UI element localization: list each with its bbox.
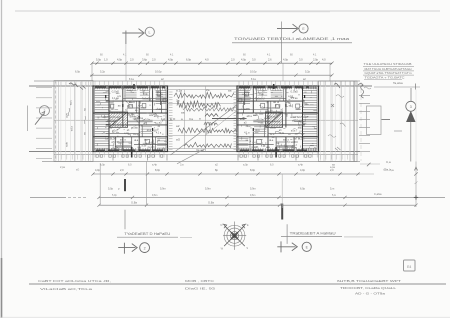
svg-text:9,6m: 9,6m — [250, 194, 255, 197]
svg-text:3: 3 — [410, 105, 412, 109]
compass crosshair horizontal — [223, 235, 246, 237]
section marker 2 arrowhead — [293, 24, 299, 33]
internal wall horizontal A — [237, 100, 305, 102]
svg-text:MOB , CBTC: MOB , CBTC — [185, 279, 215, 283]
svg-text:10,0p: 10,0p — [155, 70, 162, 74]
right section thick bar — [281, 204, 283, 220]
door arcs — [285, 101, 291, 107]
svg-text:(Ba,): (Ba,) — [384, 167, 391, 171]
lower dimension line A — [93, 173, 360, 175]
svg-text:a2: a2 — [176, 124, 180, 128]
svg-text:2,0p: 2,0p — [313, 57, 319, 61]
svg-text:2,pa: 2,pa — [60, 166, 65, 169]
svg-text:4,0a: 4,0a — [69, 100, 73, 106]
svg-text:aa2 a: aa2 a — [120, 140, 126, 142]
internal wall vertical C — [152, 86, 154, 113]
svg-text:L: L — [149, 30, 151, 34]
compass inner circle — [230, 232, 238, 240]
internal wall vertical B — [138, 101, 140, 152]
dash segment right — [382, 119, 391, 121]
right reference faint upper — [415, 90, 417, 162]
left scan edge — [1, 0, 3, 318]
svg-text:a 2a: a 2a — [176, 89, 182, 93]
svg-text:2a a: 2a a — [133, 134, 138, 136]
below-wall square marks row — [96, 155, 98, 157]
svg-text:6,0p: 6,0p — [75, 70, 81, 74]
svg-text:10,0p: 10,0p — [250, 70, 257, 74]
left section vertical at 146 — [146, 162, 148, 206]
compass outer circle — [224, 225, 245, 246]
upper mid comb — [257, 90, 267, 92]
lower dim B ticks — [97, 196, 100, 199]
right deck vertical hatch — [320, 82, 322, 162]
svg-text:4,0p: 4,0p — [283, 57, 289, 61]
internal wall horizontal A — [106, 100, 168, 102]
lower right comb — [238, 138, 248, 140]
left deck strong joists — [58, 81, 60, 161]
svg-text:E: E — [247, 223, 249, 227]
internal wall horizontal C — [237, 124, 305, 126]
section marker 2 stem — [277, 28, 297, 30]
internal wall vertical D partials — [293, 137, 295, 152]
svg-text:aa2 a: aa2 a — [283, 140, 289, 142]
gap second diagonal — [205, 110, 237, 136]
svg-text:aGa: aGa — [156, 95, 161, 97]
right section vertical light — [281, 174, 283, 208]
unit side stair hatch — [95, 87, 110, 89]
bottom mid comb — [277, 145, 293, 147]
bottom mid comb — [116, 145, 131, 147]
gap horizontal lines — [168, 89, 238, 91]
svg-text:4,0: 4,0 — [322, 57, 326, 61]
unit side stair hatch — [303, 87, 318, 89]
extra wall stubs — [268, 107, 280, 109]
dark door jambs — [122, 104, 124, 107]
section marker 1 stem — [122, 32, 143, 34]
svg-text:a 3a: a 3a — [141, 146, 146, 148]
bottom wall window comb — [238, 148, 240, 152]
svg-text:aa: aa — [228, 89, 232, 93]
svg-text:aT a2: aT a2 — [275, 106, 282, 108]
unit bottom tick row below — [94, 152, 96, 158]
trademeet marker circle — [302, 242, 311, 251]
compass star — [230, 231, 239, 240]
bottom wall dark sill segments — [96, 149, 105, 151]
gap tall spike cluster — [204, 122, 217, 125]
bath divider — [159, 86, 161, 105]
right deck interior squiggles — [336, 95, 344, 98]
second top dimension line — [90, 74, 332, 76]
main top wall line extension — [29, 85, 372, 87]
bottom wall dark sill segments — [240, 149, 249, 151]
trademeet label underline — [281, 236, 342, 238]
svg-text:5,0p: 5,0p — [112, 194, 117, 197]
svg-text:aa: aa — [181, 111, 185, 115]
svg-text:(a,AR): (a,AR) — [251, 146, 258, 149]
svg-text:4,0p: 4,0p — [168, 57, 174, 61]
unit side hatch wall — [108, 86, 110, 152]
left edge vertical line — [26, 106, 28, 132]
svg-text:Ta,aGa: Ta,aGa — [393, 81, 403, 85]
stair diagonal hatch block — [109, 112, 128, 127]
svg-text:apG: apG — [65, 142, 69, 147]
right deck border — [319, 81, 358, 162]
svg-text:B,Oa: B,Oa — [291, 146, 297, 149]
svg-text:4,0p: 4,0p — [300, 168, 306, 172]
extra wall stubs — [128, 107, 139, 109]
svg-text:3,a: 3,a — [180, 163, 184, 166]
top wall window comb — [238, 86, 240, 90]
svg-text:a,4p: a,4p — [298, 163, 303, 166]
top dimension line — [92, 62, 332, 64]
svg-text:aGa: aGa — [245, 95, 250, 97]
svg-text:A 4,1: A 4,1 — [252, 141, 258, 144]
svg-text:aCa: aCa — [255, 130, 260, 132]
left deck top scribbles — [69, 83, 78, 87]
internal wall horizontal B — [237, 112, 319, 114]
mid floor line — [54, 119, 358, 121]
right section line top — [410, 88, 412, 101]
internal wall vertical A — [285, 86, 287, 128]
internal wall horizontal D — [93, 136, 168, 138]
svg-text:a: a — [199, 117, 201, 121]
svg-text:4,0p: 4,0p — [95, 168, 101, 172]
left deck bottom comb — [55, 155, 57, 160]
gap zigzag — [205, 114, 218, 117]
bathroom fixture combs — [238, 90, 250, 92]
svg-text:2,0: 2,0 — [120, 168, 124, 172]
svg-text:5,2p: 5,2p — [100, 70, 106, 74]
title strip rule — [29, 283, 446, 285]
left deck vertical hatch — [55, 81, 57, 161]
svg-text:5,2p: 5,2p — [305, 70, 311, 74]
svg-text:8,0p: 8,0p — [250, 168, 256, 172]
svg-text:5,0p: 5,0p — [96, 57, 102, 61]
internal wall horizontal C — [106, 124, 168, 126]
left section thin line — [124, 210, 126, 230]
right section thin line — [286, 224, 288, 244]
kitchen ticks — [254, 126, 266, 128]
deck top edge line — [34, 80, 360, 82]
interior scatter texture — [159, 116, 162, 118]
top dim ticks — [90, 62, 93, 65]
svg-text:5,9m: 5,9m — [205, 186, 211, 190]
right steps ladder — [359, 94, 370, 96]
svg-text:3,0: 3,0 — [252, 57, 256, 61]
right deck inner edge double line — [353, 81, 355, 162]
note block rule3 — [363, 74, 414, 76]
svg-text:5,a: 5,a — [390, 168, 394, 172]
svg-text:G,Ba: G,Ba — [208, 200, 214, 204]
svg-text:GQUAT aTAL TTAGTGAT T,GTm: GQUAT aTAL TTAGTGAT T,GTm — [365, 71, 412, 75]
svg-text:E4: E4 — [407, 265, 411, 269]
svg-text:4,0p: 4,0p — [241, 57, 247, 61]
unit bottom tick row below — [238, 152, 240, 158]
north arrow solid triangle — [407, 112, 415, 122]
fixture marks — [157, 92, 161, 96]
svg-text:aD a: aD a — [154, 115, 160, 118]
right section line bottom — [410, 122, 412, 162]
left stair ladder marks — [36, 87, 52, 89]
svg-text:3a,G: 3a,G — [275, 115, 280, 117]
left reference arrow — [35, 114, 44, 125]
svg-text:2,pa: 2,pa — [70, 126, 74, 132]
svg-text:5,m: 5,m — [330, 186, 334, 190]
svg-text:5,9m: 5,9m — [250, 186, 256, 190]
right tiny arrow bottom — [415, 162, 417, 208]
dim end verticals — [91, 63, 93, 81]
interior scatter texture — [310, 144, 314, 146]
internal wall vertical D partials — [114, 137, 116, 152]
gap diagonal line — [171, 104, 239, 155]
svg-text:TGDAGTA + TG,BATC: TGDAGTA + TG,BATC — [365, 75, 405, 79]
svg-text:a,4a: a,4a — [279, 132, 284, 135]
kitchen ticks — [141, 126, 152, 128]
deck-bottom line right extension — [360, 163, 380, 165]
svg-text:2,0: 2,0 — [231, 57, 235, 61]
svg-text:aG: aG — [176, 138, 181, 142]
unit outer wall — [237, 86, 319, 152]
svg-text:4,1 a: 4,1 a — [156, 132, 162, 135]
left deck dashed edge — [55, 81, 57, 162]
stair diagonal hatch block — [266, 112, 283, 127]
svg-text:6,0: 6,0 — [128, 163, 132, 166]
left section thick bar — [124, 179, 126, 191]
unit outer wall — [93, 86, 168, 152]
taqha underline right — [374, 86, 420, 88]
svg-text:A 4,1: A 4,1 — [148, 141, 154, 144]
svg-text:8 1a: 8 1a — [251, 78, 256, 81]
svg-text:a,pa: a,pa — [330, 166, 335, 169]
trademeet marker arrow — [277, 246, 295, 248]
svg-text:a,0p: a,0p — [100, 163, 105, 166]
basement label underline — [117, 236, 178, 238]
svg-text:TILE UHLATECH STIDAUAB: TILE UHLATECH STIDAUAB — [364, 62, 412, 66]
compass crosshair vertical — [234, 222, 236, 250]
svg-text:9,6m: 9,6m — [152, 194, 157, 197]
lower dimension line B dashed left — [30, 196, 66, 198]
bottom wall window comb — [94, 148, 96, 152]
svg-text:3a: 3a — [83, 108, 87, 111]
closet comb — [126, 90, 137, 92]
compass star center dot — [233, 235, 235, 237]
svg-text:aa: aa — [83, 132, 86, 135]
right reference line marks — [414, 172, 418, 175]
svg-text:8 1a: 8 1a — [129, 78, 134, 81]
top wall dark sill segments — [95, 86, 106, 88]
unit top tick row above — [238, 81, 240, 86]
second dim ticks — [90, 74, 93, 77]
top wall window comb — [94, 86, 96, 90]
svg-text:aGa T: aGa T — [291, 131, 298, 133]
top wall dark sill segments — [239, 86, 250, 88]
top right section line — [280, 22, 282, 64]
svg-text:2,6: 2,6 — [268, 57, 272, 61]
unit side hatch wall — [302, 86, 304, 152]
compass arrowheads — [223, 224, 227, 228]
top scan shadow line — [15, 10, 440, 12]
closet comb — [271, 90, 283, 92]
svg-text:aa Ga: aa Ga — [264, 118, 271, 120]
svg-text:Ga aa: Ga aa — [261, 107, 268, 110]
bottom wall long line — [29, 151, 360, 153]
bottom scan edge — [0, 316, 450, 318]
bath divider — [244, 86, 246, 105]
below-wall square marks row — [240, 155, 242, 157]
left reference circle — [39, 106, 49, 116]
compass diagonal NW-SE — [224, 225, 245, 246]
dark door jambs — [285, 104, 287, 107]
circle-3 marker — [406, 101, 416, 111]
svg-text:aLa: aLa — [269, 139, 274, 142]
left deck wavy marks — [68, 108, 70, 116]
steps squiggle notes — [358, 84, 364, 99]
internal wall horizontal D — [237, 136, 319, 138]
fixture marks — [244, 92, 248, 96]
lower dim A ticks — [91, 172, 94, 175]
svg-text:aLa: aLa — [134, 139, 139, 142]
svg-text:AD - G - OT9a: AD - G - OT9a — [355, 292, 386, 296]
center top dark stub — [273, 84, 275, 89]
svg-text:5,0p: 5,0p — [108, 186, 114, 190]
center top dark stub — [133, 84, 135, 89]
svg-text:aT a2: aT a2 — [127, 106, 134, 108]
svg-text:6,0p: 6,0p — [300, 186, 306, 190]
gap spiky handwriting traces — [174, 92, 234, 98]
svg-text:a,0p: a,0p — [243, 163, 248, 166]
svg-text:aa2: aa2 — [108, 127, 113, 130]
svg-text:4,0p: 4,0p — [117, 57, 123, 61]
svg-text:CaBT FOT aOLGGa UTCa JR,: CaBT FOT aOLGGa UTCa JR, — [38, 279, 111, 283]
svg-text:C,a: C,a — [386, 160, 391, 164]
svg-text:aCa: aCa — [147, 130, 152, 132]
svg-text:TUE: TUE — [259, 93, 264, 96]
svg-text:4,0: 4,0 — [205, 57, 209, 61]
right deck strong joists — [323, 82, 325, 162]
section marker 2 circle — [299, 24, 308, 33]
bathroom fixture combs — [156, 90, 167, 92]
svg-text:aGaa: aGaa — [270, 127, 277, 130]
note block rule2 — [363, 70, 414, 72]
svg-text:DIaG IE, 93: DIaG IE, 93 — [185, 287, 216, 291]
note block rule1 — [363, 66, 414, 68]
svg-text:S: S — [246, 246, 248, 250]
unit top tick row above — [94, 81, 96, 86]
right deck dashed outer line — [360, 82, 362, 161]
gap diagonal short — [177, 149, 205, 164]
svg-text:aGaa: aGaa — [132, 127, 139, 130]
basement marker arrow — [118, 247, 135, 249]
left deck border — [54, 81, 93, 162]
svg-text:TRaDEaEBT A HaMaU: TRaDEaEBT A HaMaU — [290, 231, 337, 235]
svg-text:C,aGa: C,aGa — [374, 192, 382, 196]
internal wall vertical C — [252, 86, 254, 113]
svg-text:aG: aG — [76, 169, 79, 172]
svg-text:2,0: 2,0 — [130, 57, 134, 61]
svg-text:Ca: Ca — [189, 117, 193, 121]
svg-text:5,9m: 5,9m — [160, 186, 166, 190]
left section vertical at 100 — [99, 163, 101, 205]
right deck bottom comb — [320, 155, 322, 160]
svg-text:2a: 2a — [206, 88, 210, 92]
left section line faint — [125, 44, 127, 63]
compass middle circle — [227, 228, 242, 243]
svg-text:a,G: a,G — [117, 96, 121, 98]
below-plan tick pairs — [112, 155, 114, 161]
drawing title underline — [232, 42, 352, 44]
svg-text:TaGaOU: TaGaOU — [142, 98, 152, 101]
basement marker circle — [140, 243, 150, 253]
svg-text:a,4p: a,4p — [152, 163, 157, 166]
upper mid comb — [140, 90, 149, 92]
svg-text:6,0p: 6,0p — [186, 57, 192, 61]
right deck top comb — [320, 82, 322, 86]
left deck top comb — [55, 82, 57, 86]
gap side combs — [169, 91, 173, 93]
svg-text:1,0: 1,0 — [104, 57, 108, 61]
internal wall vertical B — [267, 101, 269, 152]
svg-text:6,0: 6,0 — [270, 163, 274, 166]
taqha cross tick — [415, 84, 417, 90]
svg-text:aD a: aD a — [247, 115, 253, 118]
deck bottom edge line — [42, 161, 360, 163]
lower dimension line C — [99, 204, 416, 206]
svg-text:8,0p: 8,0p — [155, 168, 161, 172]
internal wall horizontal E — [134, 143, 168, 145]
svg-text:5,m: 5,m — [332, 194, 336, 197]
svg-text:Ga aa: Ga aa — [139, 107, 146, 110]
svg-text:G,Ba: G,Ba — [131, 200, 137, 204]
right porch square — [367, 106, 382, 135]
svg-text:MAT TGUA CLBTGATUaTTAGH: MAT TGUA CLBTGATUaTTAGH — [365, 67, 412, 71]
gap vertical lines — [184, 90, 186, 149]
svg-text:aa Ta: aa Ta — [273, 101, 279, 104]
svg-text:VILaCIaB aO,TKLa: VILaCIaB aO,TKLa — [40, 287, 93, 291]
gap arrow to right — [212, 118, 247, 120]
interior top tick comb — [127, 88, 129, 90]
internal wall horizontal E — [237, 143, 274, 145]
svg-text:LaT BLDG: LaT BLDG — [105, 137, 116, 140]
revision box — [404, 260, 416, 271]
stair cross diagonal — [109, 112, 128, 127]
svg-text:aRTGddA: aRTGddA — [292, 120, 303, 123]
right deck top scribbles — [334, 84, 340, 89]
lower right comb — [157, 138, 166, 140]
section marker 1 circle — [145, 27, 154, 36]
svg-text:TYaDEaEBT D HaPaEU: TYaDEaEBT D HaPaEU — [124, 232, 171, 236]
svg-text:TOIVUAED TEBTDILI aLAMEADE: TOIVUAED TEBTDILI aLAMEADE ,1 maa — [234, 37, 349, 41]
svg-text:2a a: 2a a — [270, 134, 275, 136]
interior top tick comb — [237, 88, 239, 90]
svg-text:aT,O aGRO: aT,O aGRO — [285, 141, 298, 144]
svg-text:3,0: 3,0 — [299, 57, 303, 61]
svg-text:2: 2 — [144, 246, 146, 250]
compass diagonal NE-SW — [224, 225, 245, 246]
svg-text:(a,AR): (a,AR) — [148, 146, 155, 149]
gap arrow head — [243, 117, 246, 120]
svg-text:3a aa: 3a aa — [196, 148, 204, 152]
svg-text:TaGaOU: TaGaOU — [255, 98, 265, 101]
svg-text:a: a — [181, 117, 183, 121]
svg-text:2,0: 2,0 — [152, 57, 156, 61]
internal wall horizontal B — [93, 112, 168, 114]
svg-text:4,1 a: 4,1 a — [244, 132, 250, 135]
lower dim C ticks — [97, 204, 100, 207]
svg-text:N: N — [220, 223, 222, 227]
lower wall secondary line — [54, 154, 358, 156]
svg-text:B,Oa: B,Oa — [113, 146, 119, 149]
internal wall vertical A — [122, 86, 124, 128]
